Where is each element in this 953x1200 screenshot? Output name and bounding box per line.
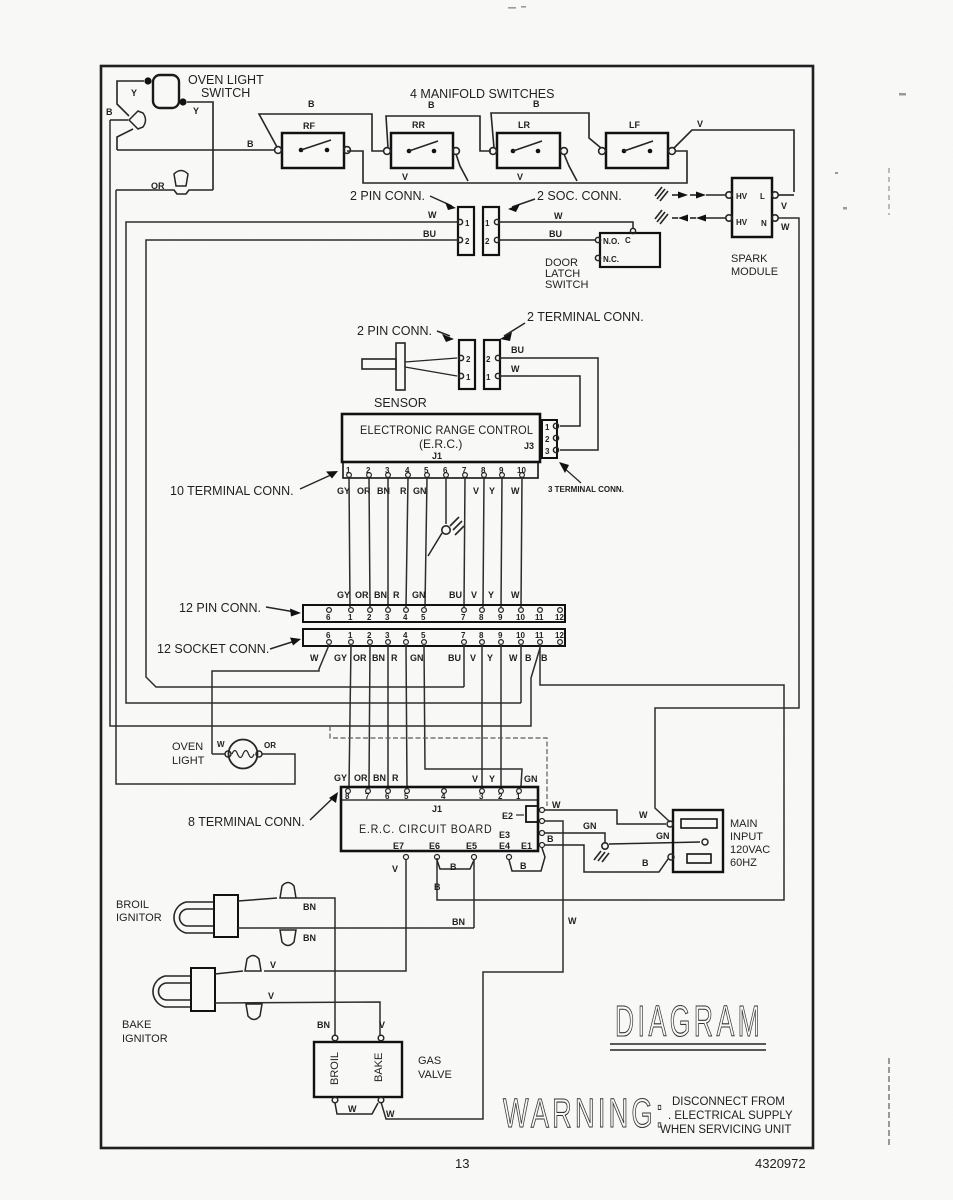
broil ignitor — [174, 895, 238, 937]
wire B feed to RF switch — [117, 149, 275, 151]
wire LR output drop — [564, 154, 577, 181]
wire W socket6 to oven light — [212, 645, 329, 750]
wire B socket11 diagonal to lower left loop — [110, 120, 540, 726]
scan artifact right edge — [888, 1058, 890, 1145]
wire B bus over RR — [386, 116, 491, 151]
wire E7 V down to bake — [264, 860, 406, 971]
wire broil bottom lead to E5 — [238, 927, 474, 929]
wire E3 GN to ground and main input — [545, 833, 605, 843]
wire E1 B to main input — [545, 845, 668, 872]
bell connector OR — [174, 171, 188, 187]
wire OR lamp return loop — [116, 190, 295, 784]
caption DIAGRAM — [610, 996, 766, 1050]
wire BU socket7 to left loop — [463, 645, 465, 687]
manifold switch LR — [490, 120, 568, 168]
wire V output bus — [347, 151, 687, 183]
arrow to 2 terminal conn — [504, 323, 525, 336]
wire D1 W to left loop — [126, 222, 521, 703]
wire W socket10 down — [520, 645, 522, 703]
caption WARNING — [503, 1092, 793, 1137]
arrow to ERC board — [310, 797, 334, 820]
wire bake top lead — [215, 971, 243, 974]
wire V to spark module — [674, 130, 794, 192]
wire E4-E1 link — [509, 848, 545, 871]
wire broil top lead — [238, 898, 277, 901]
arrow to 12 pin conn — [266, 607, 295, 612]
main input terminal block — [667, 810, 723, 872]
bell connector bake top — [245, 956, 261, 972]
wire BU sensor to J3-3 — [501, 358, 598, 450]
wire E5 down to broil BN — [473, 860, 475, 928]
chassis ground main — [594, 843, 609, 862]
wire E6-E5 link — [437, 860, 474, 869]
wire broil top to gas valve — [296, 898, 335, 1035]
12 pin connector labels — [337, 590, 520, 600]
12 socket wire labels — [310, 653, 548, 663]
wire E2b W down to gas valve — [381, 821, 563, 1119]
sensor symbol — [362, 343, 405, 390]
manifold switch RF — [275, 121, 351, 168]
wire D2 BU to left loop — [146, 240, 464, 687]
wires J1 to 12 pin conn — [349, 478, 522, 607]
arrow to J1 strip — [300, 474, 333, 489]
oven light lamp — [212, 740, 262, 769]
spark gap HV bottom — [655, 210, 726, 224]
wire B bus over RF — [259, 114, 383, 151]
wire spark L terminal — [778, 194, 794, 196]
ERC board wire labels — [334, 773, 538, 784]
bake ignitor — [153, 968, 215, 1011]
wire gas valve bottom link — [335, 1103, 378, 1114]
2 pin connector (sensor) — [458, 340, 475, 389]
chassis ground off pin 6 — [428, 517, 464, 556]
wire ground to main input GN — [609, 842, 700, 844]
page border frame — [101, 66, 813, 1148]
wire spark N terminal W down — [655, 218, 799, 822]
wire W soc1 to door latch C — [500, 222, 633, 228]
manifold switch RR — [384, 120, 460, 168]
wire B bus over LR to LF — [491, 113, 601, 148]
arrow to 2 soc conn — [512, 199, 535, 207]
12 pin connector — [303, 605, 565, 622]
wire B input to wedge — [110, 119, 128, 121]
J1 wire color labels — [337, 486, 520, 496]
door latch switch — [595, 228, 660, 267]
wire W sensor to J3-1 — [501, 376, 580, 426]
wire OR return loop with bell connector — [116, 190, 213, 194]
wire B socket11 straight down to right loop — [437, 645, 784, 900]
2 socket connector (top) — [483, 207, 500, 255]
wire Y from switch to wedge connector — [117, 81, 144, 116]
bell connector broil top — [280, 883, 296, 899]
spark module — [726, 178, 778, 237]
wire BU soc2 to door latch NO — [500, 239, 595, 241]
manifold switch LF — [599, 120, 676, 168]
wire W branch to E2 — [330, 726, 547, 806]
2 terminal connector (sensor) — [484, 340, 501, 389]
scan specks top — [508, 6, 906, 210]
electronic range control box — [342, 414, 540, 462]
12 socket connector — [303, 629, 565, 646]
scan artifact right edge upper — [888, 168, 890, 215]
wire sensor to pin 2 — [405, 358, 457, 362]
arrow to sensor pin conn — [437, 331, 450, 336]
spark gap HV top — [655, 187, 726, 201]
oven light switch — [144, 75, 186, 108]
J3 connector 3 terminal — [542, 420, 559, 458]
ERC circuit board — [341, 787, 545, 860]
2 pin connector (top) — [457, 207, 474, 255]
connector wedge (B disconnect) — [129, 111, 146, 129]
bell connector broil bottom — [280, 930, 296, 946]
wire RR output drop — [456, 154, 468, 181]
arrow to J3 — [563, 467, 581, 483]
J1 10 terminal strip — [343, 462, 538, 478]
wire E2 to main input L — [545, 810, 666, 824]
wire bake bottom lead — [215, 1002, 380, 1035]
wire sensor to pin 1 — [405, 367, 457, 376]
arrow to 2 pin conn — [430, 196, 452, 206]
wire Y switch output down — [187, 102, 213, 190]
bell connector bake bottom — [246, 1004, 262, 1020]
arrow to 12 socket conn — [270, 641, 295, 649]
gas valve — [314, 1035, 402, 1103]
wires socket to ERC board — [349, 645, 522, 786]
wire from wedge down to manifold feed — [117, 129, 133, 150]
